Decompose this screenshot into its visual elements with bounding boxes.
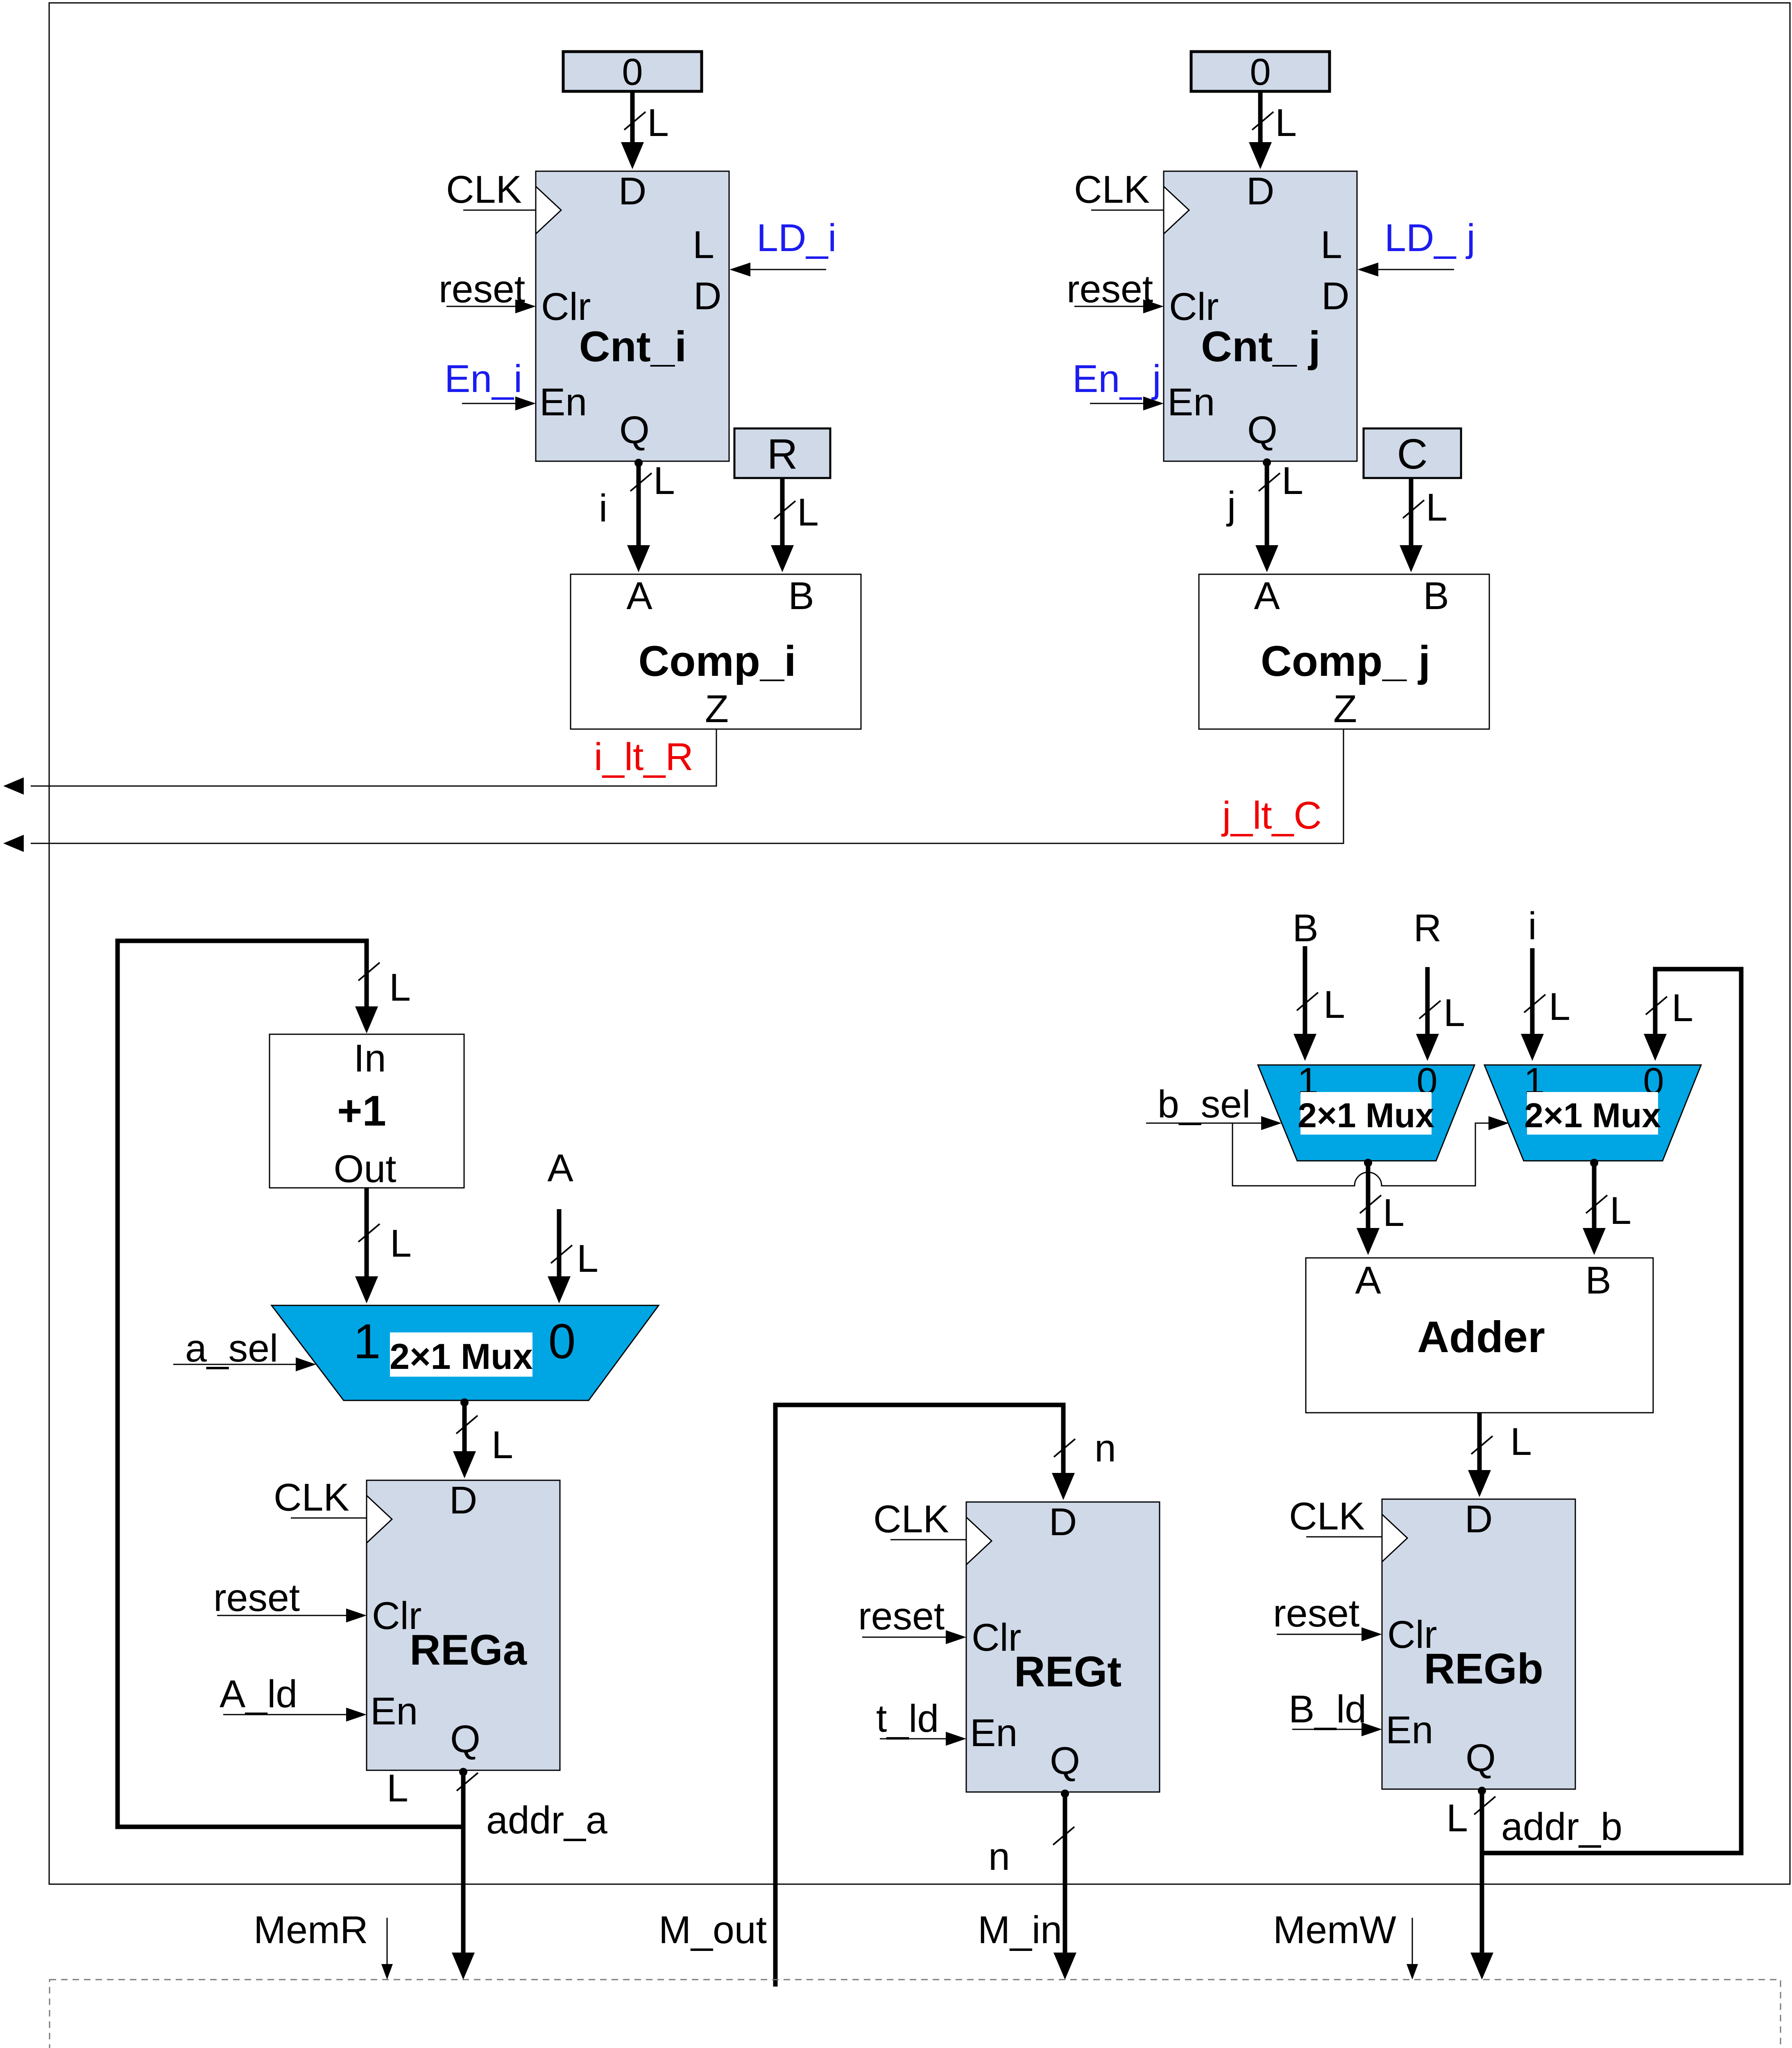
- incrementer +1: [270, 1034, 464, 1188]
- svg-text:j: j: [1226, 484, 1236, 527]
- bus Mux to REGa D: [462, 1400, 467, 1466]
- svg-text:addr_b: addr_b: [1501, 1805, 1622, 1849]
- svg-text:CLK: CLK: [1074, 168, 1150, 211]
- svg-text:L: L: [492, 1423, 513, 1467]
- bus j: Cnt_j Q to Comp_j A: [1265, 461, 1269, 560]
- svg-text:En: En: [970, 1711, 1017, 1755]
- svg-text:L: L: [647, 101, 669, 145]
- svg-text:0: 0: [622, 51, 643, 93]
- bus 0 to Cnt_j D: [1258, 91, 1263, 157]
- register Cnt_i: [536, 171, 729, 461]
- svg-text:B: B: [1292, 906, 1318, 950]
- svg-text:Comp_i: Comp_i: [638, 637, 796, 685]
- svg-text:CLK: CLK: [274, 1476, 349, 1519]
- svg-text:Q: Q: [450, 1717, 480, 1761]
- svg-text:D: D: [693, 274, 722, 318]
- svg-text:D: D: [1321, 274, 1350, 318]
- svg-text:A: A: [1355, 1259, 1381, 1302]
- svg-text:L: L: [1443, 991, 1465, 1035]
- svg-text:B_ld: B_ld: [1289, 1688, 1366, 1731]
- REGt CLK edge triangle: [966, 1517, 992, 1565]
- constant 0 (for Cnt_i): [563, 52, 702, 91]
- svg-text:i_lt_R: i_lt_R: [594, 735, 693, 779]
- svg-text:B: B: [788, 574, 814, 618]
- svg-text:a_sel: a_sel: [185, 1327, 278, 1370]
- svg-text:n: n: [1094, 1427, 1116, 1470]
- node Q dot (Cnt_j): [1263, 458, 1271, 467]
- bus M_in: REGt Q down to Memory: [1063, 1792, 1067, 1953]
- svg-text:Adder: Adder: [1417, 1312, 1545, 1362]
- svg-text:In: In: [353, 1037, 386, 1080]
- svg-text:MemR: MemR: [254, 1908, 368, 1952]
- svg-text:MemW: MemW: [1273, 1908, 1396, 1952]
- comparator Comp_i: [571, 574, 861, 729]
- svg-text:A: A: [1254, 574, 1280, 618]
- Cnt_j CLK edge triangle: [1164, 186, 1189, 234]
- bus 0 to Cnt_i D: [630, 91, 635, 157]
- svg-text:Out: Out: [333, 1147, 396, 1191]
- bus addr_b: REGb Q down to Memory: [1480, 1789, 1484, 1953]
- wire b_sel branch to second mux (with crossover arc): [1232, 1123, 1488, 1186]
- bus C to Comp_j B: [1409, 478, 1414, 560]
- svg-text:L: L: [577, 1237, 598, 1280]
- comparator Comp_j: [1199, 574, 1489, 729]
- svg-text:En_i: En_i: [444, 357, 522, 401]
- svg-text:L: L: [797, 491, 819, 534]
- svg-text:Cnt_i: Cnt_i: [579, 323, 687, 371]
- svg-text:reset: reset: [1067, 267, 1153, 311]
- svg-text:L: L: [653, 459, 675, 503]
- bus Adder out to REGb D: [1477, 1413, 1482, 1485]
- register REGb: [1382, 1499, 1575, 1789]
- svg-text:C: C: [1397, 430, 1427, 478]
- wire addr_b feedback loop (REGb Q up to Mux input 0): [1482, 969, 1741, 1853]
- svg-text:B: B: [1585, 1259, 1611, 1302]
- svg-text:REGt: REGt: [1014, 1648, 1122, 1696]
- svg-text:2×1 Mux: 2×1 Mux: [1524, 1096, 1661, 1135]
- svg-text:REGa: REGa: [410, 1626, 528, 1674]
- svg-text:0: 0: [548, 1314, 576, 1369]
- bus i: Cnt_i Q to Comp_i A: [637, 461, 641, 560]
- svg-text:Cnt_ j: Cnt_ j: [1201, 323, 1321, 371]
- svg-text:Z: Z: [705, 687, 729, 731]
- node dot mux3 output: [1590, 1159, 1598, 1167]
- svg-text:A: A: [547, 1146, 573, 1190]
- bus i to Mux input 1: [1530, 948, 1535, 1049]
- svg-text:B: B: [1423, 574, 1449, 618]
- node Q dot (REGt): [1061, 1790, 1069, 1798]
- svg-text:Comp_ j: Comp_ j: [1261, 637, 1430, 685]
- register Cnt_j: [1164, 171, 1357, 461]
- bus B to Mux input 1: [1303, 946, 1307, 1049]
- wire j_lt_C from Comp_j Z to left edge: [31, 729, 1343, 843]
- mux 2x1 (b_sel, inputs i/addr_b): [1484, 1065, 1701, 1161]
- svg-text:Q: Q: [1050, 1739, 1080, 1783]
- svg-text:D: D: [1246, 170, 1275, 213]
- wire M_out from Memory up to REGt D: [775, 1405, 1063, 1987]
- register REGt: [966, 1502, 1160, 1792]
- svg-text:L: L: [390, 1222, 412, 1265]
- node dot mux2 output: [1364, 1159, 1372, 1167]
- svg-text:reset: reset: [1273, 1592, 1359, 1635]
- wire i_lt_R from Comp_i Z to left edge: [31, 729, 716, 786]
- svg-text:En: En: [1386, 1708, 1433, 1752]
- svg-text:L: L: [1383, 1191, 1405, 1235]
- bus Mux to Adder A: [1366, 1161, 1371, 1243]
- svg-text:L: L: [693, 223, 714, 267]
- constant C: [1364, 428, 1461, 478]
- constant R: [734, 428, 830, 478]
- bus +1 Out to Mux input 1: [365, 1188, 369, 1291]
- svg-text:b_sel: b_sel: [1158, 1083, 1251, 1126]
- svg-text:D: D: [449, 1479, 478, 1522]
- bus addr_a: REGa Q down to Memory: [461, 1770, 466, 1953]
- svg-text:2×1 Mux: 2×1 Mux: [1298, 1096, 1434, 1135]
- node Q dot (Cnt_i): [634, 459, 643, 467]
- svg-text:t_ld: t_ld: [876, 1697, 939, 1740]
- svg-text:CLK: CLK: [446, 168, 522, 211]
- svg-text:L: L: [1282, 459, 1303, 503]
- svg-text:L: L: [1275, 101, 1297, 145]
- adder: [1306, 1258, 1653, 1413]
- svg-text:En: En: [539, 381, 587, 424]
- svg-text:L: L: [1323, 983, 1345, 1026]
- svg-text:n: n: [988, 1835, 1010, 1878]
- node Q dot (REGa): [459, 1768, 467, 1776]
- wire addr_a feedback loop (REGa Q up to +1 In): [118, 941, 463, 1827]
- svg-text:R: R: [767, 430, 797, 478]
- svg-text:A: A: [626, 574, 652, 618]
- svg-text:L: L: [1549, 985, 1570, 1029]
- svg-text:Z: Z: [1333, 687, 1357, 731]
- svg-text:2×1 Mux: 2×1 Mux: [390, 1336, 533, 1377]
- svg-text:Q: Q: [1247, 408, 1278, 452]
- svg-text:LD_ j: LD_ j: [1384, 216, 1475, 260]
- register REGa: [367, 1480, 560, 1770]
- svg-text:reset: reset: [858, 1595, 945, 1638]
- svg-text:+1: +1: [337, 1087, 386, 1135]
- svg-text:Clr: Clr: [1169, 285, 1219, 328]
- svg-text:En: En: [370, 1690, 418, 1733]
- svg-text:Q: Q: [619, 408, 650, 452]
- svg-text:REGb: REGb: [1424, 1645, 1543, 1693]
- bus Mux to Adder B: [1592, 1161, 1597, 1243]
- Cnt_i CLK edge triangle: [536, 186, 561, 234]
- bus R to Mux input 0: [1425, 967, 1430, 1049]
- node dot mux1 output: [460, 1398, 469, 1407]
- svg-text:M_out: M_out: [659, 1908, 767, 1952]
- bus R to Comp_i B: [780, 478, 785, 560]
- svg-text:L: L: [1321, 223, 1342, 267]
- svg-text:i: i: [599, 487, 607, 530]
- mux 2x1 (a_sel): [272, 1305, 659, 1400]
- svg-text:D: D: [1049, 1500, 1077, 1544]
- svg-text:D: D: [1465, 1497, 1493, 1541]
- svg-text:Clr: Clr: [541, 285, 591, 328]
- REGa CLK edge triangle: [367, 1495, 392, 1543]
- svg-text:L: L: [1446, 1797, 1468, 1840]
- svg-text:CLK: CLK: [873, 1497, 949, 1541]
- svg-text:L: L: [1510, 1420, 1532, 1464]
- svg-text:CLK: CLK: [1289, 1495, 1365, 1538]
- svg-text:D: D: [618, 170, 647, 213]
- svg-text:reset: reset: [439, 267, 525, 311]
- svg-text:L: L: [387, 1767, 408, 1810]
- svg-text:0: 0: [1250, 51, 1271, 93]
- svg-text:i: i: [1528, 904, 1536, 948]
- svg-text:Q: Q: [1466, 1736, 1496, 1780]
- svg-text:M_in: M_in: [978, 1908, 1062, 1952]
- svg-text:En_ j: En_ j: [1072, 357, 1161, 401]
- bus A to Mux input 0: [557, 1209, 562, 1291]
- REGb CLK edge triangle: [1382, 1514, 1407, 1562]
- svg-text:A_ld: A_ld: [220, 1672, 297, 1716]
- svg-text:L: L: [389, 966, 411, 1009]
- svg-text:j_lt_C: j_lt_C: [1221, 794, 1322, 837]
- constant 0 (for Cnt_j): [1191, 52, 1330, 91]
- node Q dot (REGb): [1478, 1787, 1486, 1795]
- memory block (dashed): [50, 1980, 1781, 2048]
- svg-text:En: En: [1167, 381, 1215, 424]
- svg-text:addr_a: addr_a: [486, 1799, 607, 1842]
- svg-text:L: L: [1610, 1189, 1631, 1232]
- svg-text:R: R: [1414, 906, 1442, 950]
- svg-text:1: 1: [353, 1314, 381, 1369]
- svg-text:LD_i: LD_i: [757, 216, 836, 260]
- svg-text:L: L: [1426, 486, 1448, 529]
- svg-text:L: L: [1672, 986, 1693, 1030]
- svg-text:reset: reset: [213, 1576, 300, 1620]
- mux 2x1 (b_sel, inputs B/R): [1258, 1065, 1475, 1161]
